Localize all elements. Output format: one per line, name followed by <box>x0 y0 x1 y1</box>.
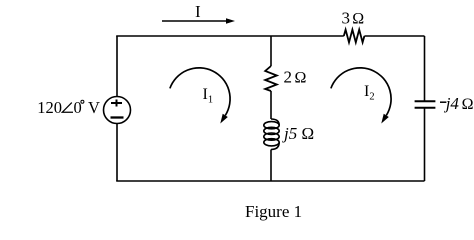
svg-text:V: V <box>88 98 100 117</box>
wire right lower <box>424 108 426 181</box>
mesh arrow I2 head <box>381 114 389 124</box>
wire middle upper <box>270 36 272 66</box>
wire bottom <box>116 180 424 182</box>
svg-text:j4: j4 <box>444 94 460 113</box>
inductor L j5ohm <box>264 119 279 150</box>
wire middle lower <box>270 150 272 182</box>
wire left upper <box>116 36 118 97</box>
wire middle mid <box>270 91 272 119</box>
svg-text:I2: I2 <box>364 83 375 103</box>
svg-text:Ω: Ω <box>295 70 307 87</box>
current arrow I head <box>226 18 235 23</box>
capacitor C -j4ohm plate bottom <box>415 107 436 109</box>
mesh arrow I2 arc <box>331 68 391 116</box>
label -j4 minus stroke <box>440 101 446 103</box>
resistor R 3ohm <box>344 30 365 43</box>
wire top-left segment <box>116 35 344 37</box>
current arrow I <box>162 20 227 22</box>
source V1 minus sign <box>111 116 124 118</box>
source V1 plus sign <box>111 100 122 107</box>
svg-text:3: 3 <box>342 9 351 28</box>
svg-text:Ω: Ω <box>462 96 474 113</box>
capacitor C -j4ohm plate top <box>415 100 436 102</box>
wire top-right segment <box>364 35 424 37</box>
svg-text:Figure 1: Figure 1 <box>245 202 302 221</box>
resistor R 2ohm <box>265 66 277 91</box>
mesh arrow I1 head <box>220 114 228 124</box>
wire left lower <box>116 124 118 182</box>
svg-text:Ω: Ω <box>352 11 364 28</box>
svg-text:j5 Ω: j5 Ω <box>282 124 314 143</box>
degree symbol <box>81 100 84 103</box>
svg-text:0: 0 <box>74 98 82 117</box>
svg-text:120: 120 <box>37 98 62 117</box>
mesh arrow I1 arc <box>170 68 230 116</box>
wire right upper <box>424 36 426 101</box>
source V1 circle <box>104 97 131 124</box>
svg-text:2: 2 <box>284 68 293 87</box>
angle symbol in 120/_0 V <box>62 103 73 113</box>
svg-text:I: I <box>195 2 201 21</box>
svg-text:I1: I1 <box>203 86 214 106</box>
